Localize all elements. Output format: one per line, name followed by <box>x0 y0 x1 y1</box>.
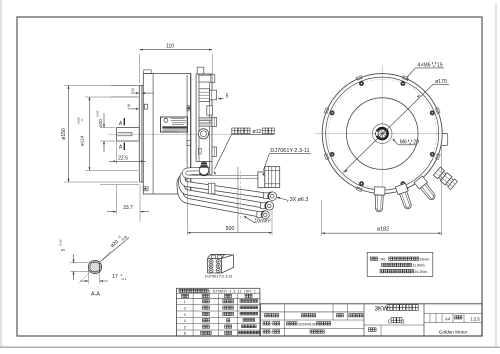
svg-text:500: 500 <box>226 226 235 232</box>
svg-text:-0.1: -0.1 <box>121 277 127 281</box>
phase wire B <box>181 174 261 206</box>
water nipple top <box>199 75 215 83</box>
flange bottom lug <box>143 187 148 191</box>
svg-text:3: 3 <box>184 313 186 317</box>
label 3x6.3 <box>277 197 309 203</box>
svg-text:A4: A4 <box>445 316 451 321</box>
svg-text:2: 2 <box>184 306 186 310</box>
svg-text:ø114: ø114 <box>80 135 85 146</box>
clamp band upper <box>199 118 212 121</box>
svg-text:22.5: 22.5 <box>118 156 128 162</box>
phase wire C <box>180 175 258 214</box>
side lug lower <box>212 147 217 156</box>
dimension 500 <box>187 182 272 235</box>
dimension 33.7 <box>100 185 149 223</box>
label 4xM6 depth15 <box>406 62 444 81</box>
svg-text:DJ7061Y-2.3-11: DJ7061Y-2.3-11 <box>205 273 233 278</box>
label M6 depth20 <box>392 139 419 146</box>
dimension dia114 <box>76 97 138 170</box>
end cap top tab <box>197 67 204 74</box>
hub keyway notch <box>374 131 378 137</box>
svg-text:10mm²: 10mm² <box>254 219 270 225</box>
label water pipe <box>214 128 275 174</box>
clamp band lower <box>199 123 212 126</box>
dimension 3 lower <box>111 97 139 110</box>
title block outline <box>260 304 482 336</box>
svg-text:1:2.5: 1:2.5 <box>470 316 480 321</box>
hub heavy ring <box>375 127 389 141</box>
hall connector side view <box>258 167 280 188</box>
svg-text:16.2Nm.: 16.2Nm. <box>415 270 428 274</box>
title block name area <box>364 304 424 336</box>
svg-text:3X ø6.3: 3X ø6.3 <box>290 197 309 203</box>
dimension 5 nipple <box>218 94 229 100</box>
A-A dim 5 <box>59 239 98 280</box>
body front top step <box>144 70 152 73</box>
front inner circle <box>346 98 418 170</box>
svg-text:3: 3 <box>127 103 130 109</box>
section A-A cut marks <box>119 118 124 150</box>
water nipple second <box>199 89 217 102</box>
front outer circle <box>322 74 442 194</box>
svg-text:6: 6 <box>184 332 186 336</box>
dimension dia182 <box>322 145 442 236</box>
svg-text:ø150: ø150 <box>61 128 67 140</box>
hall wire table <box>177 288 260 336</box>
front connector stub <box>433 167 457 190</box>
svg-text:5: 5 <box>61 248 66 251</box>
svg-text:(: ( <box>388 319 390 325</box>
dimension dia20 shaft <box>96 110 116 152</box>
wire break lines <box>238 167 241 233</box>
svg-text:15mm,: 15mm, <box>420 257 431 261</box>
shaft <box>117 128 140 141</box>
hub outer circle <box>372 124 392 144</box>
hall wire <box>184 169 258 177</box>
ring terminal B <box>261 202 274 211</box>
svg-text:Golden Motor: Golden Motor <box>439 330 468 335</box>
svg-text:/: / <box>271 322 272 326</box>
title block scale cells <box>424 314 482 335</box>
rear joint lines <box>187 74 191 195</box>
svg-text:ø170: ø170 <box>435 79 447 85</box>
A-A dim 17 <box>80 269 127 284</box>
svg-text:-0.03: -0.03 <box>59 239 63 246</box>
right hanger lug <box>442 134 448 146</box>
A-A dia20 label <box>101 231 130 261</box>
svg-text:2024/01/07: 2024/01/07 <box>299 322 317 326</box>
motor body outline <box>143 74 190 195</box>
dimension dia150 <box>61 86 138 183</box>
front flange ring <box>139 86 143 183</box>
title block revision labels <box>263 314 363 335</box>
svg-text:: M6: : M6 <box>379 257 386 261</box>
front view centerlines <box>315 65 448 203</box>
svg-text:110: 110 <box>166 44 174 50</box>
hub spoked center <box>378 129 386 137</box>
svg-text:A-A: A-A <box>91 292 100 298</box>
dia170 diagonal dimension <box>343 79 449 173</box>
svg-text:ø182: ø182 <box>377 227 389 233</box>
end cap center boss <box>198 129 208 139</box>
svg-text:33.7: 33.7 <box>123 205 133 211</box>
end cap <box>196 74 212 174</box>
svg-text:ø20: ø20 <box>98 119 103 127</box>
svg-text:-0.03: -0.03 <box>96 110 100 117</box>
svg-text:1: 1 <box>184 300 186 304</box>
front grommet 3 <box>414 176 438 202</box>
front bolt circle <box>328 79 436 187</box>
svg-text:5: 5 <box>184 325 186 329</box>
page bottom edge <box>0 346 500 348</box>
A-A diagonal centerline <box>79 251 111 283</box>
svg-text:[ DJ7061Y-2.3-11 (6P) ]: [ DJ7061Y-2.3-11 (6P) ] <box>209 290 256 295</box>
page right edge <box>495 3 497 347</box>
svg-text:4: 4 <box>184 319 186 323</box>
svg-text:/: / <box>271 330 272 334</box>
cap upper lug <box>207 106 213 115</box>
label DJ7061Y side <box>263 148 311 175</box>
front rim inner circle <box>326 77 439 190</box>
svg-text:5: 5 <box>226 94 229 100</box>
page left edge <box>0 0 2 347</box>
note box <box>367 252 433 276</box>
dimension 110 <box>139 44 212 84</box>
cable gland <box>199 162 210 176</box>
wire break line <box>237 167 239 233</box>
front grommet 2 <box>395 183 413 210</box>
dimension 22.5 <box>109 142 146 164</box>
label 10mm2 <box>244 216 271 225</box>
ring terminal A <box>264 192 277 201</box>
body small fitting marks <box>187 106 191 146</box>
svg-text:): ) <box>403 319 405 325</box>
connector 3D detail <box>208 255 234 274</box>
svg-text:17: 17 <box>112 274 118 280</box>
mounting tabs and bolts <box>324 76 440 192</box>
svg-text:3: 3 <box>131 88 134 94</box>
wire collar A <box>208 183 215 194</box>
svg-text:11.6Nm,: 11.6Nm, <box>413 264 426 268</box>
ring terminal C <box>257 211 269 219</box>
side view centerline <box>108 133 232 135</box>
left small tab <box>198 148 201 154</box>
side lug upper <box>212 117 217 126</box>
dimension 3 upper <box>111 86 154 95</box>
A-A section circle <box>88 260 101 273</box>
front grommet 1 <box>374 187 385 212</box>
nameplate <box>161 117 188 132</box>
phase wire A <box>183 172 265 195</box>
flange top lug <box>144 104 147 109</box>
